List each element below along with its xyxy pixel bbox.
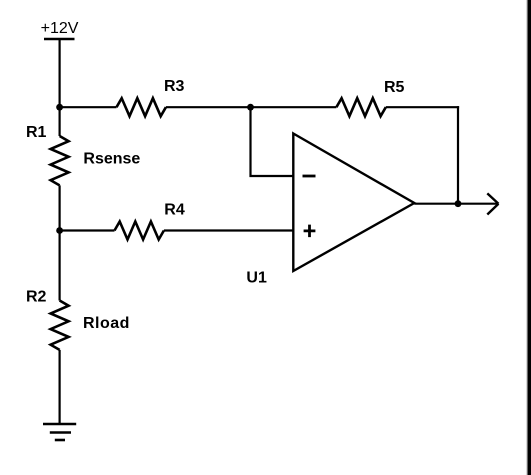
- wire from +12V rail down to node A: [58, 39, 60, 136]
- wire node C to R4: [60, 229, 115, 231]
- svg-text:R5: R5: [384, 79, 405, 96]
- svg-text:R4: R4: [164, 202, 185, 219]
- wire node B down to inverting input: [251, 107, 294, 176]
- wire R5 to feedback corner: [386, 106, 459, 108]
- svg-text:R2: R2: [26, 288, 47, 305]
- wire Rsense to node C: [58, 185, 60, 300]
- right edge scan band: [526, 0, 531, 475]
- svg-text:R3: R3: [164, 78, 185, 95]
- op-amp plus input symbol: [304, 225, 316, 238]
- wire Rload to ground: [58, 350, 60, 424]
- ground: [43, 424, 76, 440]
- svg-text:R1: R1: [26, 124, 47, 141]
- node C junction dot: [56, 227, 63, 234]
- wire R4 to non-inverting input: [164, 229, 293, 231]
- node B junction dot: [247, 104, 254, 111]
- op-amp minus input symbol: [303, 175, 316, 178]
- svg-text:U1: U1: [246, 270, 267, 287]
- resistor R3: [117, 98, 166, 116]
- svg-text:+12V: +12V: [41, 20, 79, 37]
- wire R3 to node B and on to R5: [166, 106, 337, 108]
- resistor R4: [115, 222, 164, 240]
- svg-text:Rsense: Rsense: [83, 150, 140, 167]
- node A junction dot (top left): [56, 104, 63, 111]
- output node junction dot: [455, 200, 462, 207]
- resistor R5: [336, 98, 385, 116]
- op-amp U1: [293, 134, 414, 272]
- wire node A to R3: [60, 106, 117, 108]
- +12V power rail bar: [44, 38, 75, 40]
- resistor R1 Rsense (vertical): [51, 136, 69, 185]
- feedback wire down to output node: [457, 106, 459, 204]
- svg-text:Rload: Rload: [83, 315, 130, 332]
- output arrowhead: [487, 193, 498, 214]
- resistor R2 Rload (vertical): [51, 301, 69, 350]
- output wire: [414, 203, 497, 205]
